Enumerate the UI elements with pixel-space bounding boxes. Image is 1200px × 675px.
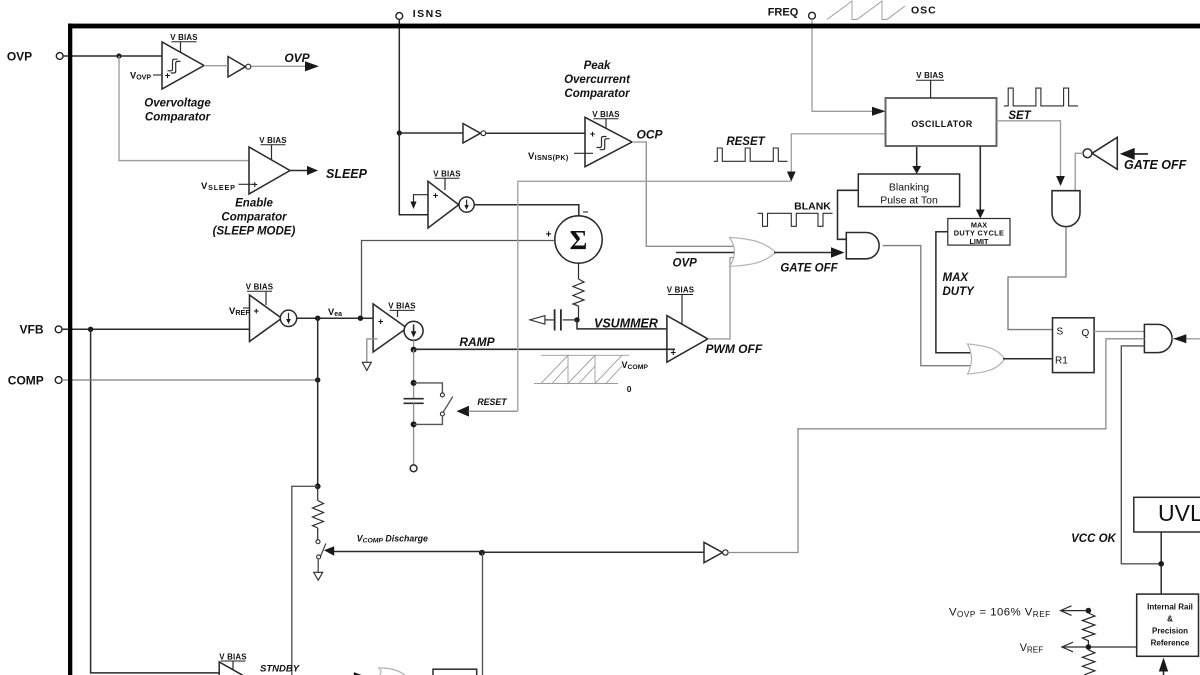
svg-text:Comparator: Comparator xyxy=(564,88,630,100)
VBIAS label U3 xyxy=(592,110,620,129)
current source at error amp output xyxy=(280,310,296,326)
op-amp U2 enable comparator xyxy=(249,147,290,194)
node Vea junction xyxy=(315,316,320,321)
svg-text:GATE OFF: GATE OFF xyxy=(1124,158,1187,172)
wire discharge junction to inverter xyxy=(481,551,704,553)
summing junction sigma xyxy=(555,216,602,263)
svg-text:VREF: VREF xyxy=(229,306,250,317)
VCOMP sawtooth waveform xyxy=(534,355,629,383)
svg-text:V BIAS: V BIAS xyxy=(170,33,198,42)
svg-text:STNDBY: STNDBY xyxy=(260,663,301,674)
RESET arrow into switch xyxy=(456,406,517,417)
VBIAS label U6 xyxy=(246,283,274,306)
node VFB junction xyxy=(88,327,93,332)
svg-text:VSLEEP: VSLEEP xyxy=(201,181,236,192)
gray OR gate partial at bottom xyxy=(379,668,406,675)
wire UVLO down to reference box xyxy=(1160,532,1162,594)
svg-text:Precision: Precision xyxy=(1152,627,1188,636)
svg-text:+: + xyxy=(165,70,171,81)
VBIAS label U1 xyxy=(170,33,198,52)
svg-text:Peak: Peak xyxy=(584,60,611,72)
wire Vea down through COMP to divider xyxy=(317,318,319,486)
node ISNS junction xyxy=(397,130,402,135)
svg-text:R1: R1 xyxy=(1055,355,1068,366)
svg-text:ISNS: ISNS xyxy=(413,8,444,20)
svg-text:V BIAS: V BIAS xyxy=(246,283,274,292)
buffer after U1 xyxy=(204,57,306,78)
svg-text:VISNS(PK): VISNS(PK) xyxy=(528,151,569,162)
op-amp U3 peak overcurrent comparator xyxy=(585,117,632,166)
AND gate U9 xyxy=(846,233,879,259)
arrow oscillator to blanking box xyxy=(912,146,921,174)
node cap bottom junction xyxy=(411,421,417,427)
U4 plus input stub with down arrow xyxy=(410,195,428,209)
svg-text:Reference: Reference xyxy=(1151,639,1190,648)
AND gate U11 vertical xyxy=(1052,191,1080,227)
svg-text:OSCILLATOR: OSCILLATOR xyxy=(911,119,973,129)
open arrow VOVP xyxy=(1061,606,1092,616)
wire max duty box to OR2 xyxy=(936,232,971,353)
label Peak Overcurrent Comparator xyxy=(564,60,631,100)
label MAX DUTY xyxy=(943,272,976,298)
svg-text:Overvoltage: Overvoltage xyxy=(144,98,211,110)
open arrow VREF xyxy=(1062,642,1137,652)
box partial at bottom xyxy=(433,669,477,675)
arrow up into reference box bottom xyxy=(1159,658,1168,675)
svg-text:0: 0 xyxy=(627,384,632,394)
svg-text:COMP: COMP xyxy=(8,374,44,388)
inverter U15 on vcomp discharge line xyxy=(704,542,728,562)
reset switch across cap xyxy=(414,383,453,425)
SET output wire from oscillator (gray) xyxy=(997,121,1065,186)
svg-text:MAX: MAX xyxy=(943,272,970,284)
svg-text:+: + xyxy=(546,230,552,241)
wire junction to comparator minus input xyxy=(119,55,172,57)
box UVLO xyxy=(1134,497,1200,532)
svg-text:Pulse at Ton: Pulse at Ton xyxy=(880,195,938,207)
op-amp U6 error amplifier xyxy=(250,295,282,342)
svg-text:VFB: VFB xyxy=(20,323,44,337)
svg-text:(SLEEP MODE): (SLEEP MODE) xyxy=(213,226,296,238)
capacitor C ramp xyxy=(404,399,424,404)
pin OVP xyxy=(7,50,63,64)
divider resistor on COMP xyxy=(313,483,324,539)
OR gate U8 gate-off xyxy=(730,238,776,267)
wire ISNS junction to buffer xyxy=(399,132,463,134)
svg-text:+: + xyxy=(378,316,384,327)
wire FREQ pin to oscillator xyxy=(812,19,886,116)
current source at GAMP output xyxy=(404,321,423,340)
wire cap bottom to ground xyxy=(413,403,415,465)
AND gate U14 output xyxy=(1144,324,1172,352)
discharge switch xyxy=(314,540,326,581)
svg-text:Blanking: Blanking xyxy=(889,182,929,194)
arrow on RESET routing xyxy=(787,172,796,182)
wire VFB pin to error amp xyxy=(62,328,257,330)
svg-text:Q: Q xyxy=(1082,328,1090,339)
sawtooth waveform at FREQ pin xyxy=(827,1,905,20)
VISNS(PK) label xyxy=(528,151,593,162)
wire VCC OK to AND3 bottom input xyxy=(1121,346,1161,564)
capacitor at VSUMMER xyxy=(545,309,578,330)
label Overvoltage Comparator xyxy=(144,98,211,124)
OVP output arrow xyxy=(305,61,319,71)
svg-text:OVP: OVP xyxy=(284,51,310,65)
VBIAS label U5 xyxy=(667,286,695,324)
svg-text:Comparator: Comparator xyxy=(145,112,211,124)
svg-text:BLANK: BLANK xyxy=(794,201,831,213)
wire blanking box to AND top input xyxy=(838,190,859,239)
pin FREQ xyxy=(768,7,816,20)
wire OVP pin to junction xyxy=(63,55,119,57)
wire GAMP cs down to RAMP node xyxy=(413,340,415,349)
svg-text:SET: SET xyxy=(1008,110,1031,122)
svg-text:VCC OK: VCC OK xyxy=(1071,533,1116,545)
wire summer left input from Vea line xyxy=(362,241,555,319)
label RESET with pulses xyxy=(714,136,788,162)
svg-text:+: + xyxy=(590,129,596,140)
svg-text:V BIAS: V BIAS xyxy=(592,110,620,119)
standby output arrow partial xyxy=(354,672,364,675)
svg-text:UVLO: UVLO xyxy=(1158,500,1200,526)
svg-text:+: + xyxy=(433,191,439,202)
BLANK waveform xyxy=(758,213,833,226)
svg-text:RESET: RESET xyxy=(477,397,507,407)
box Internal Rail and Precision Reference xyxy=(1137,594,1199,656)
open arrow left of capacitor xyxy=(530,316,545,325)
svg-text:SLEEP: SLEEP xyxy=(326,167,368,181)
svg-text:GATE OFF: GATE OFF xyxy=(780,262,838,274)
wire PWM output up to OR gate (gray) xyxy=(708,258,737,339)
svg-text:Enable: Enable xyxy=(235,198,273,210)
VREF label at error amp xyxy=(229,306,250,317)
svg-text:OCP: OCP xyxy=(637,128,664,142)
svg-text:DUTY: DUTY xyxy=(943,286,976,298)
svg-text:RAMP: RAMP xyxy=(459,335,495,349)
box OSCILLATOR xyxy=(886,98,997,146)
node cap top junction xyxy=(411,380,417,386)
svg-text:OSC: OSC xyxy=(911,5,937,17)
node RAMP junction xyxy=(411,347,417,353)
wire OVP junction down to enable comparator (gray) xyxy=(119,56,257,161)
arrow into AND3 output from right xyxy=(1172,334,1200,343)
wire discharge junction down to bottom box xyxy=(482,553,484,675)
node COMP junction xyxy=(315,377,320,382)
wire AND2 output to latch S input xyxy=(1008,227,1066,330)
label Enable Comparator (SLEEP MODE) xyxy=(213,198,296,238)
svg-text:LIMIT: LIMIT xyxy=(969,237,989,246)
svg-text:S: S xyxy=(1057,326,1064,337)
GATE OFF arrow into inverter xyxy=(1120,148,1187,172)
svg-text:+: + xyxy=(254,306,260,317)
wire feedback from inverter2 up to AND3 middle input xyxy=(729,339,1144,553)
svg-text:Comparator: Comparator xyxy=(221,212,287,224)
ground open circle below cap xyxy=(410,465,417,472)
node VCC OK junction xyxy=(1158,561,1164,567)
node junction to summer branch xyxy=(358,316,363,321)
VBIAS label U7 xyxy=(388,302,416,317)
VBIAS label oscillator xyxy=(916,71,944,98)
svg-text:RESET: RESET xyxy=(726,136,765,148)
VBIAS label U4 xyxy=(433,170,461,191)
wire OCP output down to OR gate (gray) xyxy=(632,142,737,246)
wire VFB down to standby comparator xyxy=(91,329,219,673)
node OVP junction xyxy=(116,53,121,58)
wire RAMP to PWM comparator xyxy=(414,348,675,350)
svg-text:FREQ: FREQ xyxy=(768,7,799,19)
wire U4 output to summer top xyxy=(474,205,579,216)
svg-text:VSUMMER: VSUMMER xyxy=(594,316,658,330)
VSUMMER wire to PWM comparator xyxy=(577,320,675,329)
pin VFB xyxy=(20,323,62,337)
op-amp U7 GAMP xyxy=(373,304,407,352)
OR gate U12 before R1 xyxy=(968,344,1005,374)
svg-text:OVP: OVP xyxy=(673,258,698,270)
SR latch U13 xyxy=(1053,318,1095,373)
svg-text:V BIAS: V BIAS xyxy=(259,136,287,145)
SET pulse waveform xyxy=(1004,88,1078,106)
wire AND output down to OR2 xyxy=(883,246,971,366)
wire OR output with arrow to AND xyxy=(774,247,845,257)
wire buffer to OCP comparator xyxy=(486,132,593,134)
svg-text:Internal Rail: Internal Rail xyxy=(1147,603,1193,612)
current source at U4 output xyxy=(459,197,474,212)
svg-text:V BIAS: V BIAS xyxy=(916,71,944,80)
OVP input stub to OR gate xyxy=(676,252,737,254)
node discharge junction xyxy=(479,550,485,556)
op-amp U16 standby comparator xyxy=(219,652,260,675)
wire COMP node branch to left vertical xyxy=(292,486,318,675)
box Blanking Pulse at Ton xyxy=(858,174,959,207)
box MAX DUTY CYCLE LIMIT xyxy=(948,219,1010,246)
node VSUMMER junction xyxy=(574,317,579,322)
op-amp U4 current sense amp xyxy=(428,181,459,228)
arrow oscillator to max duty box xyxy=(976,146,985,219)
svg-text:OVP: OVP xyxy=(7,50,32,64)
wire RESET routing from oscillator (gray) xyxy=(518,181,792,411)
inverter U10 gate off xyxy=(1083,137,1117,169)
VOVP label xyxy=(130,71,162,82)
pin COMP xyxy=(8,374,62,388)
wire error amp output to GAMP xyxy=(297,317,381,319)
wire OR2 output to R1 xyxy=(1003,358,1053,360)
svg-text:PWM OFF: PWM OFF xyxy=(706,342,763,356)
wire inverter output down to AND2 xyxy=(1075,153,1083,190)
op-amp U1 overvoltage comparator xyxy=(162,42,204,89)
VSLEEP label xyxy=(201,181,256,192)
wire Q to AND3 xyxy=(1094,330,1144,332)
arrow vcomp discharge to switch xyxy=(324,546,482,555)
SLEEP output arrow xyxy=(290,166,368,181)
resistor below VREF xyxy=(1082,650,1095,675)
resistor below summer xyxy=(573,263,584,320)
svg-text:V BIAS: V BIAS xyxy=(388,302,416,311)
VBIAS label U2 xyxy=(259,136,287,160)
op-amp U5 PWM comparator xyxy=(667,316,708,363)
svg-text:V BIAS: V BIAS xyxy=(219,652,247,661)
svg-text:V BIAS: V BIAS xyxy=(433,170,461,179)
pin ISNS xyxy=(396,8,443,20)
svg-text:&: & xyxy=(1167,615,1173,624)
svg-text:Overcurrent: Overcurrent xyxy=(564,74,631,86)
wire ISNS pin down xyxy=(398,19,400,133)
wire ISNS junction down to current comparator xyxy=(399,133,428,215)
wire RAMP node down xyxy=(413,350,415,399)
svg-text:Σ: Σ xyxy=(570,225,588,255)
wire COMP pin (gray) xyxy=(62,379,318,381)
buffer on ISNS xyxy=(463,124,486,144)
svg-text:V BIAS: V BIAS xyxy=(667,286,695,295)
resistor VOVP to VREF xyxy=(1082,613,1095,645)
GAMP minus input to ground xyxy=(362,339,377,371)
